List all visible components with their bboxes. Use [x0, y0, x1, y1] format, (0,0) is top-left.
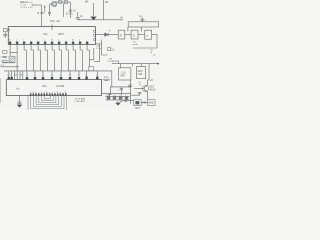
box G bottom	[148, 100, 155, 106]
capacitor C4	[76, 18, 80, 19]
diode D1	[105, 33, 109, 37]
wire Q1 base feed	[50, 4, 53, 12]
wire y44 stub	[96, 43, 102, 45]
capacitor C10 between rails	[120, 87, 123, 94]
wire R2 to IC	[7, 29, 8, 31]
capacitor C17	[138, 93, 142, 96]
IC1 pin pads bottom row	[9, 42, 88, 44]
IC2 top pins spread	[27, 71, 97, 80]
IC1 pin labels row	[9, 40, 87, 42]
IC2 pin labels top	[7, 73, 98, 76]
mid top bus	[78, 19, 123, 21]
label Da 1n	[139, 82, 143, 87]
IC1 box	[8, 27, 95, 45]
IC2 bottom pin labels	[30, 92, 67, 94]
wire x99.5	[94, 44, 100, 62]
right horizontal bus	[112, 63, 157, 65]
label 1.1 1u	[120, 97, 128, 99]
capacitor C18 bottom left marks	[120, 99, 127, 101]
inductor L2 on rail	[64, 1, 67, 4]
rail h y87	[110, 86, 130, 88]
battery flat box BT1	[128, 22, 159, 27]
small box component X1	[108, 48, 111, 51]
filter FL2	[131, 30, 138, 39]
box E	[136, 67, 145, 79]
ground G2	[17, 105, 22, 108]
label ICL czude	[132, 41, 139, 46]
capacitor C1	[48, 12, 51, 16]
electrolytic dots	[8, 77, 11, 80]
wire base rail y95.2	[131, 94, 140, 96]
label LW in box D	[121, 71, 127, 77]
label Ca C5	[0, 57, 4, 67]
IC2 top pins cluster left	[9, 71, 23, 80]
cap bank labels	[106, 95, 127, 97]
cap bank top rail	[106, 95, 130, 97]
ground G1	[91, 17, 97, 20]
long vertical wire x130.7	[130, 80, 132, 104]
wire stub flatbox to FL gap 1	[127, 27, 129, 32]
wire from bus x111.8 down	[110, 71, 112, 94]
mid bus	[4, 70, 112, 72]
box F bottom	[134, 100, 141, 106]
wire bus drop to box D	[120, 64, 141, 68]
capacitor C7	[3, 57, 7, 58]
transistor Q2	[134, 85, 149, 91]
labels right of IC1 corner	[96, 45, 102, 50]
wire to right bus	[112, 61, 119, 64]
label W/B right	[151, 49, 154, 54]
IC2 bottom pin pads dense	[30, 93, 67, 95]
wire FL1-FL2	[125, 34, 131, 36]
wires IC1 pins down with jogs	[10, 44, 17, 52]
label +CB 4.7u	[108, 58, 115, 63]
resistor R2 left of IC	[3, 29, 7, 32]
ground G3	[116, 100, 121, 105]
wire FL3 down then left	[133, 44, 157, 48]
frame left edge	[0, 78, 2, 103]
label BC2 MK14	[149, 87, 156, 92]
inductor L3 on bus	[89, 67, 94, 71]
wire antenna vertical	[41, 5, 43, 27]
capacitor C5 top right	[141, 17, 144, 22]
capacitor C16	[128, 85, 132, 86]
nested U wires under IC2	[28, 96, 67, 111]
wire ladder h1	[2, 62, 15, 64]
top supply rail	[56, 1, 70, 3]
wire drop x93.5	[93, 3, 95, 17]
transistor Q1	[51, 1, 56, 6]
filter FL1	[118, 30, 125, 39]
capacitor C2 with polarity	[69, 10, 72, 11]
inductor L1 on rail	[59, 1, 62, 4]
label MK2 C2B dark	[138, 70, 144, 76]
wire stub flatbox to FL gap 2	[140, 27, 142, 32]
filter FL3	[145, 30, 152, 39]
box F fill mark	[135, 101, 139, 104]
capacitor C11 vertical	[108, 94, 111, 97]
wire drop x56	[55, 2, 57, 6]
wire drop x63.5	[63, 3, 65, 17]
paper texture overlay	[0, 0, 1, 1]
cap bank bottom rail	[106, 99, 130, 101]
box D	[119, 68, 131, 80]
wire from IC1 terminal down	[102, 40, 108, 56]
wire stub top pin	[51, 24, 53, 30]
capacitor C8 under IC2 left	[17, 96, 21, 105]
capacitor C6 left of IC	[3, 32, 7, 38]
wire emitter down	[147, 92, 149, 100]
wire FL2-FL3	[138, 34, 145, 36]
left ladder wire jog	[9, 52, 11, 56]
capacitor bank C12-C15	[107, 97, 128, 100]
wire antenna stub 2	[44, 6, 46, 13]
top pin pads IC2	[26, 77, 99, 80]
wire FL3 out	[152, 35, 157, 44]
terminal J1	[157, 63, 159, 65]
IC1 right terminals	[93, 30, 95, 41]
resistor R4 hatched	[9, 56, 15, 62]
wire ladder h2	[1, 66, 20, 68]
rail h y92.8	[102, 93, 131, 95]
resistor R5 rung	[3, 60, 7, 62]
wire bottom connect	[122, 100, 148, 102]
wire drop x70	[69, 2, 71, 18]
IC2 box	[6, 80, 101, 96]
labels under IC2 center	[75, 97, 86, 103]
wire drop x103.3 with label	[102, 0, 104, 20]
capacitor C9 right of IC2	[103, 79, 111, 80]
wire collector from bus	[148, 64, 149, 86]
wire right pin jog	[89, 48, 94, 60]
wire drop x77.8	[77, 12, 79, 18]
wire IF out	[96, 34, 119, 36]
wire from module to antenna line	[32, 4, 42, 6]
dashed input module box	[21, 2, 32, 7]
resistor R3	[3, 51, 7, 54]
